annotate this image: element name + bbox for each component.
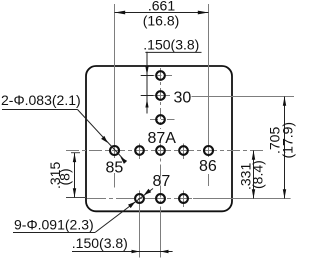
wire: bottom row extension to right dimension bbox=[193, 198, 291, 200]
svg-text:(8): (8) bbox=[57, 168, 73, 185]
relay body outline bbox=[86, 66, 232, 211]
dimension .705 (17.9) right bbox=[284, 97, 286, 199]
hole pin 87 bbox=[135, 194, 144, 203]
svg-text:.150(3.8): .150(3.8) bbox=[72, 235, 128, 251]
svg-text:85: 85 bbox=[106, 160, 124, 177]
svg-text:30: 30 bbox=[174, 90, 192, 107]
hole bottom row right bbox=[179, 194, 188, 203]
svg-text:.150(3.8): .150(3.8) bbox=[143, 36, 199, 52]
svg-text:.661: .661 bbox=[148, 0, 175, 14]
hole pin 85 bbox=[110, 146, 119, 155]
svg-text:9-Φ.091(2.3): 9-Φ.091(2.3) bbox=[14, 217, 94, 233]
hole middle row 4 bbox=[179, 146, 188, 155]
wire: horizontal center line middle row bbox=[66, 150, 263, 152]
dimension .331 (8.4) right bbox=[253, 151, 255, 199]
hole pin 86 bbox=[204, 146, 213, 155]
svg-text:86: 86 bbox=[199, 158, 217, 175]
svg-text:87A: 87A bbox=[148, 130, 177, 147]
hole top column 2 (pin 30) bbox=[156, 91, 165, 100]
hole middle row 2 bbox=[135, 146, 144, 155]
dimension .315 (8) left bbox=[74, 153, 76, 198]
svg-text:(8.4): (8.4) bbox=[249, 160, 265, 189]
wire: center line column right of 87A bbox=[183, 144, 185, 160]
wire: extension line right of .661 through hole 86 bbox=[208, 4, 210, 157]
wire: extension line left of .661 through hole 85 bbox=[114, 4, 116, 158]
svg-text:(16.8): (16.8) bbox=[143, 13, 180, 29]
wire: horizontal center line bottom row bbox=[87, 198, 192, 200]
svg-text:87: 87 bbox=[153, 173, 171, 190]
wire: center line column through hole 87 down to bottom dimension bbox=[139, 144, 141, 160]
dimension .661 (16.8) top bbox=[115, 12, 209, 14]
svg-text:(17.9): (17.9) bbox=[279, 122, 295, 159]
hole top column 3 bbox=[156, 115, 165, 124]
hole bottom row center bbox=[156, 194, 165, 203]
wire: horizontal center line third hole row bbox=[150, 119, 175, 121]
wire: horizontal center line hole 30 row bbox=[141, 95, 171, 97]
hole pin 87A bbox=[156, 146, 165, 155]
wire: vertical center line of middle column bbox=[160, 68, 162, 129]
wire: bottom row extension to left dimension bbox=[66, 197, 86, 199]
hole top column 1 bbox=[156, 71, 165, 80]
wire: horizontal center line top hole row bbox=[141, 75, 173, 77]
svg-text:2-Φ.083(2.1): 2-Φ.083(2.1) bbox=[1, 92, 81, 108]
